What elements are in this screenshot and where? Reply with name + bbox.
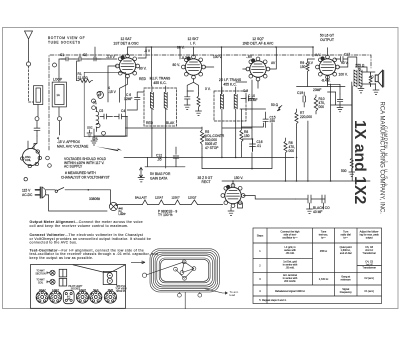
svg-text:250: 250: [270, 119, 276, 123]
B plus bus wire: [222, 180, 370, 182]
speaker plug box: [103, 271, 117, 284]
svg-text:-15 V: -15 V: [108, 90, 117, 94]
svg-text:-8.2V: -8.2V: [181, 56, 190, 60]
node 6b terminal: [92, 99, 96, 103]
resistor R9: [306, 59, 309, 87]
arrow avc pointer: [96, 147, 122, 152]
resistor R6: [284, 138, 287, 157]
svg-text:000: 000: [319, 105, 325, 109]
ground C18: [337, 107, 343, 111]
svg-text:A.V.: A.V.: [315, 53, 321, 57]
svg-text:SOCKET: SOCKET: [71, 288, 81, 290]
T2 primary winding: [150, 92, 153, 109]
svg-text:C1 (ant.): C1 (ant.): [364, 290, 374, 293]
heater symbol 12SA7: [159, 200, 164, 205]
wire V4 top cap: [327, 48, 329, 56]
arrow gain data: [140, 168, 143, 178]
svg-text:oscillator to—: oscillator to—: [282, 237, 298, 240]
svg-text:.05: .05: [157, 158, 162, 162]
node 10 terminal: [46, 156, 50, 160]
speaker opening lines: [73, 265, 126, 273]
field coil resistor: [369, 73, 372, 87]
wire V4 cathode: [328, 78, 341, 94]
node 5 terminal: [97, 92, 101, 96]
wire mid horizontal: [94, 128, 252, 136]
svg-text:SPKR PL: SPKR PL: [116, 291, 126, 293]
node 17 terminal: [24, 178, 27, 181]
wire top rail fills: [180, 46, 276, 48]
AVC bus wire: [124, 156, 294, 158]
antenna coupling coil: [34, 86, 43, 105]
socket 50L6 bottom view: [90, 291, 102, 303]
svg-text:CHANALYST OR VOLTOHMYST: CHANALYST OR VOLTOHMYST: [61, 175, 110, 179]
ground osc: [91, 136, 97, 145]
svg-text:RED: RED: [146, 121, 154, 125]
svg-text:C19: C19: [297, 91, 303, 95]
capacitor C17: [335, 57, 348, 62]
antenna: [25, 31, 33, 62]
heater symbol 12SQ7: [191, 200, 197, 205]
svg-text:COIL: COIL: [25, 159, 31, 162]
wire V4 plate to T5: [339, 57, 357, 67]
svg-text:1B: 1B: [67, 299, 70, 301]
osc trimmer C4: [114, 114, 128, 119]
svg-text:8.V: 8.V: [308, 61, 314, 65]
ground osc box: [87, 130, 92, 137]
T2 secondary winding: [164, 92, 167, 109]
svg-text:.05 mfd.: .05 mfd.: [285, 252, 294, 255]
svg-text:I. F.: I. F.: [190, 41, 196, 45]
svg-text:C 9: C 9: [243, 89, 248, 93]
svg-text:200 mmfd.: 200 mmfd.: [284, 280, 296, 283]
svg-text:150: 150: [300, 65, 306, 69]
table merged cell line: [357, 265, 382, 267]
wire antenna coil down: [37, 105, 39, 117]
svg-text:220,000: 220,000: [300, 115, 312, 119]
svg-text:40 MF: 40 MF: [313, 210, 322, 214]
table row lines: [253, 243, 382, 296]
svg-text:12SA7: 12SA7: [39, 289, 47, 292]
capacitor C22: [322, 195, 325, 209]
loop terminal wires: [146, 262, 194, 279]
socket 12SQ7 bottom view: [76, 291, 88, 303]
coil spiral: [97, 91, 103, 98]
svg-text:Transformer: Transformer: [362, 252, 376, 255]
heater symbol 12SK7: [175, 200, 180, 205]
wire V3 plate coupling: [241, 123, 263, 157]
wire C2 to R1: [77, 61, 80, 81]
loop winding outline: [150, 249, 219, 292]
capacitor C7: [185, 91, 194, 105]
wire cathode bias run: [202, 80, 272, 169]
diode wiper arrow: [277, 105, 282, 111]
trimmer capacitor C1: [61, 57, 74, 61]
socket panel box: [31, 265, 126, 309]
T3 secondary winding: [234, 94, 237, 109]
svg-text:keep the output as low as poss: keep the output as low as possible.: [30, 256, 94, 260]
svg-text:TY 100 %: TY 100 %: [158, 213, 172, 217]
svg-text:12SK7: 12SK7: [52, 290, 60, 292]
svg-text:LOOP: LOOP: [53, 78, 63, 82]
svg-text:4: 4: [57, 137, 59, 141]
svg-text:OSC: OSC: [87, 126, 93, 130]
svg-text:-.6V: -.6V: [246, 55, 253, 59]
svg-text:Transformer: Transformer: [362, 267, 376, 270]
ground T5: [358, 86, 364, 93]
ground speaker return: [349, 172, 355, 176]
wire speaker field return: [331, 82, 352, 157]
capacitor C15: [263, 112, 268, 128]
speaker: [375, 70, 384, 87]
svg-text:1,720 kc: 1,720 kc: [319, 278, 329, 281]
svg-text:12SQ7: 12SQ7: [188, 196, 197, 200]
wire antenna to osc coil: [32, 136, 37, 148]
svg-text:Rebalanced signal 1290 kc: Rebalanced signal 1290 kc: [275, 290, 306, 293]
svg-text:455 K.C.: 455 K.C.: [153, 81, 166, 85]
node 9 terminal: [102, 131, 106, 135]
svg-text:100 V.: 100 V.: [339, 73, 348, 77]
ballast socket bottom view: [63, 290, 74, 303]
resistor R12: [350, 157, 353, 172]
capacitor C12: [173, 147, 179, 167]
svg-text:33806#: 33806#: [89, 197, 100, 201]
node 7 terminal: [92, 106, 96, 110]
svg-text:C2: C2: [83, 53, 87, 57]
tube V4 50L6GT: [316, 55, 340, 79]
tube V3 12SQ7: [246, 57, 270, 81]
wire V1 cathode drop: [120, 77, 128, 102]
svg-text:COIL: COIL: [92, 137, 99, 141]
svg-text:lead: lead: [230, 293, 236, 297]
filter capacitor C20: [296, 195, 326, 209]
socket 12SA7 bottom view: [36, 291, 48, 303]
svg-text:OUTPUT: OUTPUT: [320, 38, 334, 42]
wire heater chain: [118, 204, 223, 206]
svg-text:0 V.: 0 V.: [205, 87, 211, 91]
svg-text:-8.4 V.: -8.4 V.: [321, 79, 331, 83]
svg-text:80 V.: 80 V.: [177, 46, 185, 50]
node 8 terminal: [35, 117, 39, 121]
svg-text:1A: 1A: [57, 93, 60, 97]
ground filter: [307, 209, 313, 213]
svg-text:C1: C1: [60, 53, 64, 57]
svg-text:35Z5: 35Z5: [108, 290, 114, 292]
wire diode return: [240, 109, 266, 127]
svg-text:90 V.: 90 V.: [341, 61, 349, 65]
svg-text:4Ω: 4Ω: [370, 75, 374, 79]
svg-text:2ND DET. AF & AVC: 2ND DET. AF & AVC: [243, 41, 274, 45]
svg-text:minimum: minimum: [341, 279, 351, 282]
node 3 loop: [198, 293, 202, 297]
svg-text:TO ANT: TO ANT: [36, 279, 45, 282]
ground 5V bias: [138, 178, 145, 182]
svg-text:RED: RED: [139, 77, 147, 81]
ground speaker: [373, 84, 379, 95]
wire loop bottom: [58, 107, 61, 135]
T2 wires down: [152, 86, 166, 128]
svg-text:AC SUPPLY: AC SUPPLY: [64, 165, 83, 169]
wire V1 to V2 top: [138, 47, 180, 59]
pointer arrow from text: [131, 261, 145, 264]
socket 35Z5 bottom view: [104, 291, 116, 303]
svg-text:Steps: Steps: [257, 235, 264, 238]
svg-text:1X and 1X2: 1X and 1X2: [351, 120, 368, 205]
output transformer T5: [354, 70, 357, 87]
padder C5: [100, 114, 113, 119]
tube V5 35Z5 rectifier: [221, 183, 245, 207]
oscillator coil T1: [96, 111, 100, 127]
tube V1 12SA7: [115, 54, 139, 78]
svg-text:RECT: RECT: [202, 180, 211, 184]
svg-text:TUBE SOCKETS: TUBE SOCKETS: [48, 41, 81, 45]
svg-text:5V BIAS FOR: 5V BIAS FOR: [150, 172, 171, 176]
loop antenna coil LOOP: [52, 82, 66, 107]
oscillator box: [84, 72, 125, 136]
trimmer capacitor C3: [94, 47, 101, 61]
svg-text:LAMP: LAMP: [119, 212, 126, 216]
wire V1 plate up: [128, 47, 152, 86]
svg-text:12SK7: 12SK7: [172, 196, 181, 200]
wire top bus to V1: [88, 58, 117, 60]
T3 wires: [222, 87, 236, 123]
svg-text:1ST DET & OSC: 1ST DET & OSC: [113, 41, 139, 45]
trimmer capacitor C2: [74, 54, 88, 61]
svg-text:555 Ω: 555 Ω: [356, 64, 365, 68]
svg-text:100 V.: 100 V.: [213, 55, 222, 59]
node 4 loop: [178, 293, 182, 297]
svg-text:80 V.: 80 V.: [139, 67, 147, 71]
svg-text:150 V.: 150 V.: [234, 176, 243, 180]
svg-text:150: 150: [244, 134, 250, 138]
svg-text:Frequency: Frequency: [340, 291, 353, 294]
svg-text:TO ANT: TO ANT: [36, 270, 45, 273]
wire T5 to speaker: [356, 67, 376, 86]
AC plug: [35, 190, 40, 195]
svg-text:C5: C5: [99, 109, 103, 113]
IF transformer T2 box: [144, 88, 177, 126]
oscillator coil bottom view: [21, 141, 42, 168]
svg-text:C4: C4: [121, 109, 125, 113]
svg-text:4? STOP: 4? STOP: [205, 146, 219, 150]
svg-text:T5: T5: [358, 67, 362, 71]
loop bottom lead: [179, 292, 199, 309]
resistor R7: [295, 109, 298, 128]
wire switch down: [110, 190, 112, 205]
svg-text:end of dial: end of dial: [340, 252, 352, 255]
svg-text:12MF: 12MF: [124, 97, 132, 101]
svg-text:-8 V: -8 V: [144, 49, 151, 53]
heater symbol ballast: [142, 200, 147, 205]
svg-text:455 kc: 455 kc: [320, 250, 328, 253]
trimmer screw B: [50, 279, 55, 284]
svg-text:500: 500: [341, 169, 347, 173]
svg-text:50 Ω: 50 Ω: [271, 103, 279, 107]
svg-text:C2 (ant.): C2 (ant.): [364, 277, 374, 280]
resistor R1: [77, 79, 93, 83]
ground V2 cathode b: [196, 111, 202, 115]
svg-text:-1.5 V: -1.5 V: [106, 55, 116, 59]
wire rect to filters: [243, 196, 295, 200]
svg-text:BOTTOM VIEW OF: BOTTOM VIEW OF: [48, 36, 85, 40]
svg-text:50-MF: 50-MF: [248, 98, 258, 102]
wires osc section: [94, 117, 127, 137]
svg-text:CAMDEN, N. J., U. S. A.: CAMDEN, N. J., U. S. A.: [383, 126, 388, 189]
svg-text:22,000: 22,000: [78, 76, 88, 80]
T3 primary winding: [220, 94, 223, 109]
capacitor C6: [127, 92, 144, 110]
pilot lamp: [109, 202, 117, 210]
svg-text:50L6: 50L6: [93, 290, 99, 292]
svg-text:Repeat steps 3 and 4.: Repeat steps 3 and 4.: [262, 299, 287, 302]
svg-text:SECTION: SECTION: [35, 273, 46, 275]
svg-text:to—: to—: [321, 237, 326, 240]
node 1 terminal: [26, 62, 30, 66]
ground rectifier: [228, 208, 234, 216]
capacitor C19: [303, 92, 306, 107]
wire V2 cathode: [187, 78, 198, 93]
wire V3 to C13: [243, 69, 258, 88]
socket 12SK7 bottom view: [49, 291, 61, 303]
loop terminal circles: [182, 260, 186, 264]
resistor R3: [197, 93, 200, 111]
wire rectifier up: [233, 84, 352, 185]
svg-text:output: output: [366, 237, 373, 240]
svg-text:MAX. AVC VOLTAGE: MAX. AVC VOLTAGE: [57, 145, 89, 149]
capacitor C13: [241, 96, 255, 101]
node 3 terminal: [58, 117, 62, 121]
node 11 terminal: [48, 164, 52, 168]
IF lead wires down: [152, 123, 236, 168]
chassis dash-dot boundary: [49, 55, 371, 150]
wire T3 sec to V3 grid: [236, 81, 247, 83]
trimmer box C12: [59, 278, 66, 286]
wire V2 plate: [194, 47, 222, 94]
IF transformer T3 box: [214, 91, 246, 121]
capacitor C21: [34, 121, 40, 136]
svg-text:-15 V. APPROX: -15 V. APPROX: [57, 140, 81, 144]
wire screen rail: [297, 59, 346, 87]
svg-text:AC-DC: AC-DC: [22, 193, 33, 197]
trimmer screw A: [50, 270, 55, 275]
svg-text:T1: T1: [93, 101, 97, 105]
svg-text:GAIN DATA: GAIN DATA: [150, 177, 168, 181]
svg-text:coil and keep the receiver vol: coil and keep the receiver volume contro…: [30, 224, 129, 228]
resistor R10: [314, 95, 318, 114]
wire V2 to T3: [205, 66, 214, 68]
ground V2 cathode a: [184, 105, 190, 109]
wire loop top: [59, 59, 66, 82]
svg-text:80 V.: 80 V.: [173, 63, 181, 67]
resistor R8: [240, 127, 243, 146]
tube V2 12SK7: [181, 55, 205, 79]
svg-text:COIL: COIL: [38, 282, 44, 284]
trimmer box C14: [59, 269, 66, 277]
capacitor C23: [238, 203, 243, 208]
svg-text:12SA7: 12SA7: [155, 196, 164, 200]
antenna lead (dashed): [29, 66, 34, 102]
svg-text:BALLAST: BALLAST: [135, 196, 147, 200]
svg-text:connected to the AVC bus.: connected to the AVC bus.: [30, 241, 78, 245]
node 6 terminal: [53, 63, 57, 67]
svg-text:.05 mfd.: .05 mfd.: [285, 267, 294, 270]
svg-text:455 K.C.: 455 K.C.: [223, 82, 236, 86]
wire V1 grid to loop: [108, 66, 117, 102]
switch S1: [55, 190, 57, 192]
table column lines: [267, 228, 357, 304]
svg-text:C17: C17: [344, 53, 350, 57]
bias rail wire: [145, 157, 185, 166]
svg-text:to—: to—: [343, 237, 348, 240]
svg-text:20MF: 20MF: [313, 88, 321, 92]
svg-text:000: 000: [289, 149, 295, 153]
table outer: [253, 228, 382, 304]
capacitor C18: [337, 94, 343, 107]
volume control R5: [200, 127, 206, 149]
capacitor C16: [250, 139, 256, 152]
plug wires: [46, 190, 107, 211]
svg-text:BLAK: BLAK: [166, 121, 175, 125]
to ant lead wire arrow: [205, 289, 228, 294]
wire V3 plate to V4: [269, 47, 313, 69]
svg-text:.01: .01: [257, 144, 262, 148]
